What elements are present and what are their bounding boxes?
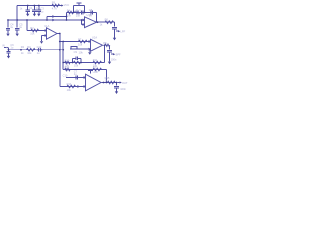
svg-text:U1B: U1B (87, 13, 92, 17)
resistor R7 on U1A-U2A wire (79, 40, 87, 43)
wire U2A noninverting input (70, 48, 91, 50)
resistor R4 in chain (68, 11, 75, 14)
wire U2B inverting input (66, 77, 86, 79)
svg-text:100n: 100n (111, 58, 117, 62)
arrow net U2A (113, 53, 115, 55)
capacitor C4 below second rail (6, 20, 10, 34)
capacitor C5 below second rail (15, 20, 19, 34)
svg-text:10k: 10k (79, 50, 84, 54)
wire U2A output (103, 44, 110, 46)
capacitor C8 in chain (91, 10, 93, 14)
pin arrowhead U1B plus (83, 23, 85, 25)
ground U1B RC (113, 38, 116, 41)
junction rail2 x81 (81, 19, 83, 21)
capacitor C12 on input line (37, 48, 42, 52)
svg-text:R4: R4 (67, 8, 71, 12)
junction input node (8, 49, 10, 51)
ground below U2A plus (88, 52, 91, 55)
svg-text:10k: 10k (76, 13, 81, 17)
wire second rail (8, 19, 85, 21)
resistor R12 row2 right (93, 68, 101, 71)
resistor R11 row2 left (65, 68, 70, 71)
svg-text:C12: C12 (37, 45, 42, 49)
potentiometer box above chain (74, 6, 85, 13)
svg-text:100n: 100n (120, 87, 126, 91)
svg-text:RV1: RV1 (76, 8, 82, 12)
junction rail2 x17 (16, 19, 18, 21)
wire U1A output (57, 33, 60, 35)
svg-text:10k: 10k (67, 88, 72, 92)
resistor R14 on U2B output (108, 81, 116, 84)
net arrow stub U1B (116, 30, 118, 32)
pin arrowhead U2A minus (89, 40, 91, 42)
wire arrowhead U2B plus wire (77, 85, 79, 87)
svg-text:10k: 10k (30, 31, 35, 35)
svg-text:R2: R2 (21, 45, 25, 49)
wire feedback row 2 (63, 69, 106, 71)
svg-text:C1: C1 (29, 6, 33, 10)
junction rail2 x47 (46, 19, 48, 21)
svg-text:R14: R14 (67, 82, 72, 86)
ground below C1 (26, 14, 29, 17)
power T symbol on pot (77, 3, 82, 6)
svg-text:U2A: U2A (92, 36, 97, 40)
junction U2B output dots (103, 82, 105, 84)
junction top rail C2 (34, 5, 36, 7)
resistor R15 on U2A output (105, 44, 110, 46)
junction row1 left (62, 62, 64, 64)
pin arrowhead U2A plus (89, 48, 91, 50)
junction rail2 left (7, 19, 9, 21)
pin arrowhead U1A minus (45, 29, 47, 31)
wire U2A feedback vertical (104, 45, 106, 62)
capacitor C11 on U2B output RC (114, 83, 119, 92)
capacitor C1 drop from top rail (26, 6, 30, 14)
svg-text:C10: C10 (63, 74, 68, 78)
power T above U2B (88, 71, 93, 74)
capacitor bridge over R in row 1 (73, 57, 82, 63)
wire U1A output to U2A input (60, 41, 91, 43)
svg-text:IN: IN (2, 43, 5, 47)
op-amp U2A (91, 39, 103, 51)
ground below C4 (6, 34, 9, 37)
capacitor C9 on U2A output RC (107, 45, 112, 61)
resistor R3 on input line (27, 48, 36, 51)
wire U1B input upper (47, 17, 67, 21)
svg-text:1k: 1k (100, 23, 103, 27)
capacitor C2 drop from top rail (32, 6, 36, 14)
component box on U2A plus wire (71, 46, 77, 49)
resistor R1 on top rail (52, 4, 60, 7)
wire U2A plus ground stub (89, 49, 91, 52)
ground U2B RC (115, 91, 118, 94)
wire top rail (17, 5, 62, 7)
junction top rail C3 (38, 5, 40, 7)
junction input wire legs (59, 49, 61, 51)
arrow net U2B (120, 81, 122, 83)
junction top rail C1 (27, 5, 29, 7)
capacitor C6 input node to ground (6, 48, 10, 56)
ground below C2 (33, 14, 36, 17)
wire U1B plus input jog (82, 20, 85, 25)
resistor R6 on U1B output (105, 21, 113, 24)
wire arrowhead row2 (66, 68, 68, 70)
wire U1B output (97, 21, 115, 23)
wire U1A noninverting input stub (42, 36, 47, 42)
svg-text:1k: 1k (20, 7, 23, 11)
resistor R13 on U2B plus input (67, 85, 75, 88)
svg-text:R9: R9 (52, 0, 56, 4)
resistor R8 row1 left (65, 61, 70, 64)
arrow net U1B (118, 30, 120, 32)
svg-text:VCC: VCC (64, 3, 70, 7)
svg-text:R8: R8 (103, 41, 107, 45)
capacitor C7 on U1B output RC (112, 22, 117, 38)
wire chain right corner down (96, 13, 98, 23)
svg-text:R13: R13 (93, 66, 98, 70)
junction input wire x21 (20, 49, 22, 51)
resistor R5 in pot box (76, 11, 80, 13)
wire feedback row 1 (63, 62, 104, 64)
junction chain x66 (66, 16, 68, 18)
resistor R10 row1 right (93, 61, 101, 64)
ground below C5 (16, 34, 19, 37)
junction box legs (73, 12, 75, 14)
svg-text:R2: R2 (30, 26, 34, 30)
capacitor plates in pot box (81, 11, 83, 15)
svg-text:R7: R7 (78, 37, 82, 41)
wire chain to U1B (67, 13, 97, 21)
svg-text:U2B: U2B (93, 70, 98, 74)
capacitor C10 on U2B inverting input (76, 76, 78, 80)
pin arrowhead U2B plus (84, 85, 86, 87)
ground below U1A plus (40, 41, 43, 44)
ground below C3 (37, 14, 40, 17)
svg-text:R3: R3 (27, 45, 31, 49)
op-amp U2B (86, 74, 102, 91)
wire input terminal stub (4, 47, 6, 49)
arrow input terminal (7, 47, 9, 49)
svg-text:R6: R6 (105, 17, 109, 21)
svg-text:10k: 10k (67, 13, 72, 17)
svg-text:10k: 10k (78, 42, 83, 46)
svg-text:LPF: LPF (120, 30, 125, 34)
resistor R9 row1 bridge (74, 61, 81, 64)
capacitor C3 drop from top rail (37, 6, 41, 14)
svg-text:R11: R11 (93, 58, 98, 62)
wire U2B output (102, 82, 117, 84)
pin arrowhead U2B minus (84, 76, 86, 78)
svg-text:1k: 1k (21, 51, 24, 55)
wire arrowhead rail2 (52, 19, 54, 21)
svg-text:R12: R12 (65, 65, 70, 69)
wire U2B feedback vertical (106, 70, 108, 83)
svg-text:1u: 1u (37, 51, 40, 55)
pin arrowhead U1A plus (45, 34, 47, 36)
wire arrowhead upper U1B wire (52, 15, 54, 17)
svg-text:4.7k: 4.7k (52, 6, 58, 10)
resistor R2 on U1A input (31, 29, 39, 32)
wire long left leg down (60, 34, 86, 87)
junction rail2 x66 (66, 19, 68, 21)
svg-text:10k: 10k (74, 64, 79, 68)
svg-text:BPF: BPF (116, 53, 121, 57)
arrow VCC (61, 4, 63, 6)
svg-text:C2: C2 (36, 6, 40, 10)
op-amp U1B (85, 17, 97, 28)
wire U1A inverting input branch (27, 20, 47, 31)
op-amp U1A (47, 28, 58, 39)
svg-text:U1A: U1A (44, 24, 49, 28)
net arrow stub U2A (111, 53, 113, 55)
pin arrowhead U1B minus (83, 19, 85, 21)
svg-text:C8: C8 (89, 8, 93, 12)
junction y41 wires (59, 41, 61, 43)
ground U2A RC (108, 62, 111, 65)
junction U2A output (104, 44, 106, 46)
wire arrowhead row1 (66, 61, 68, 63)
net arrow stub U2B (118, 82, 120, 84)
svg-text:OUT: OUT (122, 81, 128, 85)
svg-text:C9: C9 (74, 50, 78, 54)
svg-text:10k: 10k (27, 51, 32, 55)
svg-text:R10: R10 (65, 58, 70, 62)
wire input signal line (9, 49, 64, 51)
junction bridge legs (72, 62, 74, 64)
junction U1A output (59, 33, 61, 35)
junction rail2 x27 (26, 19, 28, 21)
wire left vertical from top rail (16, 6, 18, 21)
ground below input cap (7, 56, 10, 59)
junction U1B output (97, 21, 99, 23)
wire VCC arrow stub (59, 5, 61, 7)
wire right leg down (62, 42, 64, 70)
